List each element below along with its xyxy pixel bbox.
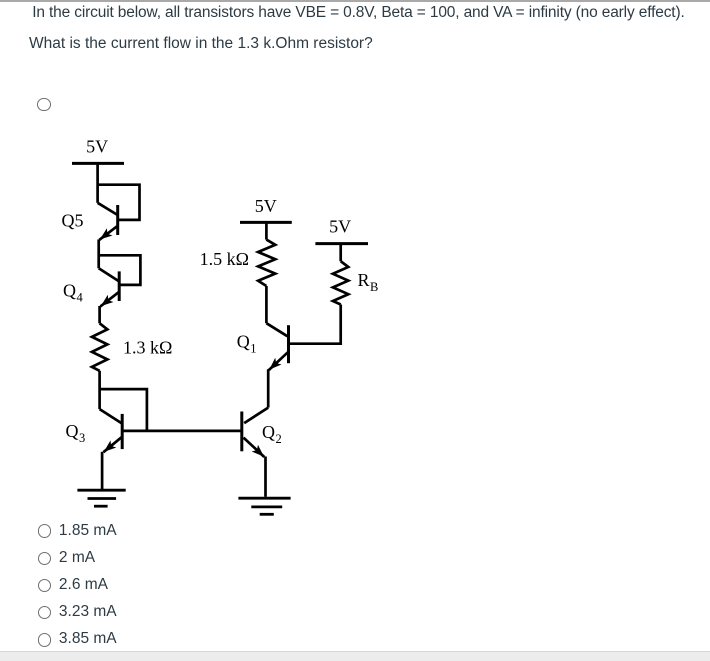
wire resistor 1.3k to Q3 collector bbox=[98, 371, 101, 409]
transistor Q1 (NPN) bbox=[266, 323, 288, 370]
svg-text:3: 3 bbox=[79, 431, 85, 445]
resistor R 1.3k (zigzag) bbox=[92, 323, 108, 371]
svg-text:1: 1 bbox=[250, 341, 256, 355]
ground (left, under Q3) bbox=[77, 490, 125, 506]
wire Q4 emitter to resistor 1.3k bbox=[98, 306, 101, 323]
transistor Q3 (diode-connected NPN) bbox=[100, 389, 147, 452]
svg-text:2: 2 bbox=[276, 432, 282, 446]
wire 5V rail to resistor RB bbox=[339, 244, 342, 262]
label Q1 bbox=[237, 331, 257, 355]
ground (right, under Q2) bbox=[238, 498, 290, 514]
resistor 1.5k (zigzag) bbox=[258, 240, 275, 286]
svg-text:4: 4 bbox=[77, 291, 84, 305]
svg-text:R: R bbox=[358, 270, 370, 290]
svg-text:Q: Q bbox=[63, 281, 76, 301]
svg-text:5V: 5V bbox=[255, 196, 277, 216]
wire 5V rail to Q5 collector bbox=[96, 163, 99, 202]
svg-text:Q: Q bbox=[237, 331, 250, 351]
wire Q2 emitter to ground bbox=[264, 457, 267, 497]
svg-text:5V: 5V bbox=[329, 217, 351, 237]
power rail bar 5V left bbox=[72, 162, 124, 165]
wire 5V rail to resistor 1.5k bbox=[265, 222, 268, 239]
wire node Q3 base to Q2 base bbox=[124, 430, 242, 433]
wire resistor 1.5k to Q1 collector bbox=[265, 286, 268, 323]
transistor Q5 (diode-connected NPN) bbox=[98, 185, 140, 240]
svg-text:Q: Q bbox=[262, 422, 275, 442]
resistor RB (zigzag) bbox=[333, 261, 348, 304]
svg-text:Q5: Q5 bbox=[62, 211, 84, 231]
svg-text:B: B bbox=[370, 280, 378, 294]
label RB bbox=[358, 270, 379, 294]
power rail bar 5V middle bbox=[240, 221, 292, 224]
label Q4 bbox=[63, 281, 84, 305]
power rail bar 5V right bbox=[315, 242, 368, 245]
wire Q5 emitter to Q4 collector bbox=[97, 239, 100, 268]
svg-text:5V: 5V bbox=[86, 137, 108, 157]
wire resistor RB to Q1 base bbox=[290, 305, 341, 344]
label Q2 bbox=[262, 422, 282, 446]
wire Q1 emitter to Q2 collector bbox=[267, 369, 270, 407]
transistor Q4 (diode-connected NPN) bbox=[99, 255, 141, 306]
svg-text:1.3 kΩ: 1.3 kΩ bbox=[123, 337, 172, 357]
wire Q3 emitter to ground bbox=[101, 452, 104, 490]
svg-text:Q: Q bbox=[66, 421, 79, 441]
label Q3 bbox=[66, 421, 86, 445]
svg-text:1.5 kΩ: 1.5 kΩ bbox=[200, 249, 249, 269]
transistor Q2 (NPN) bbox=[242, 408, 268, 457]
